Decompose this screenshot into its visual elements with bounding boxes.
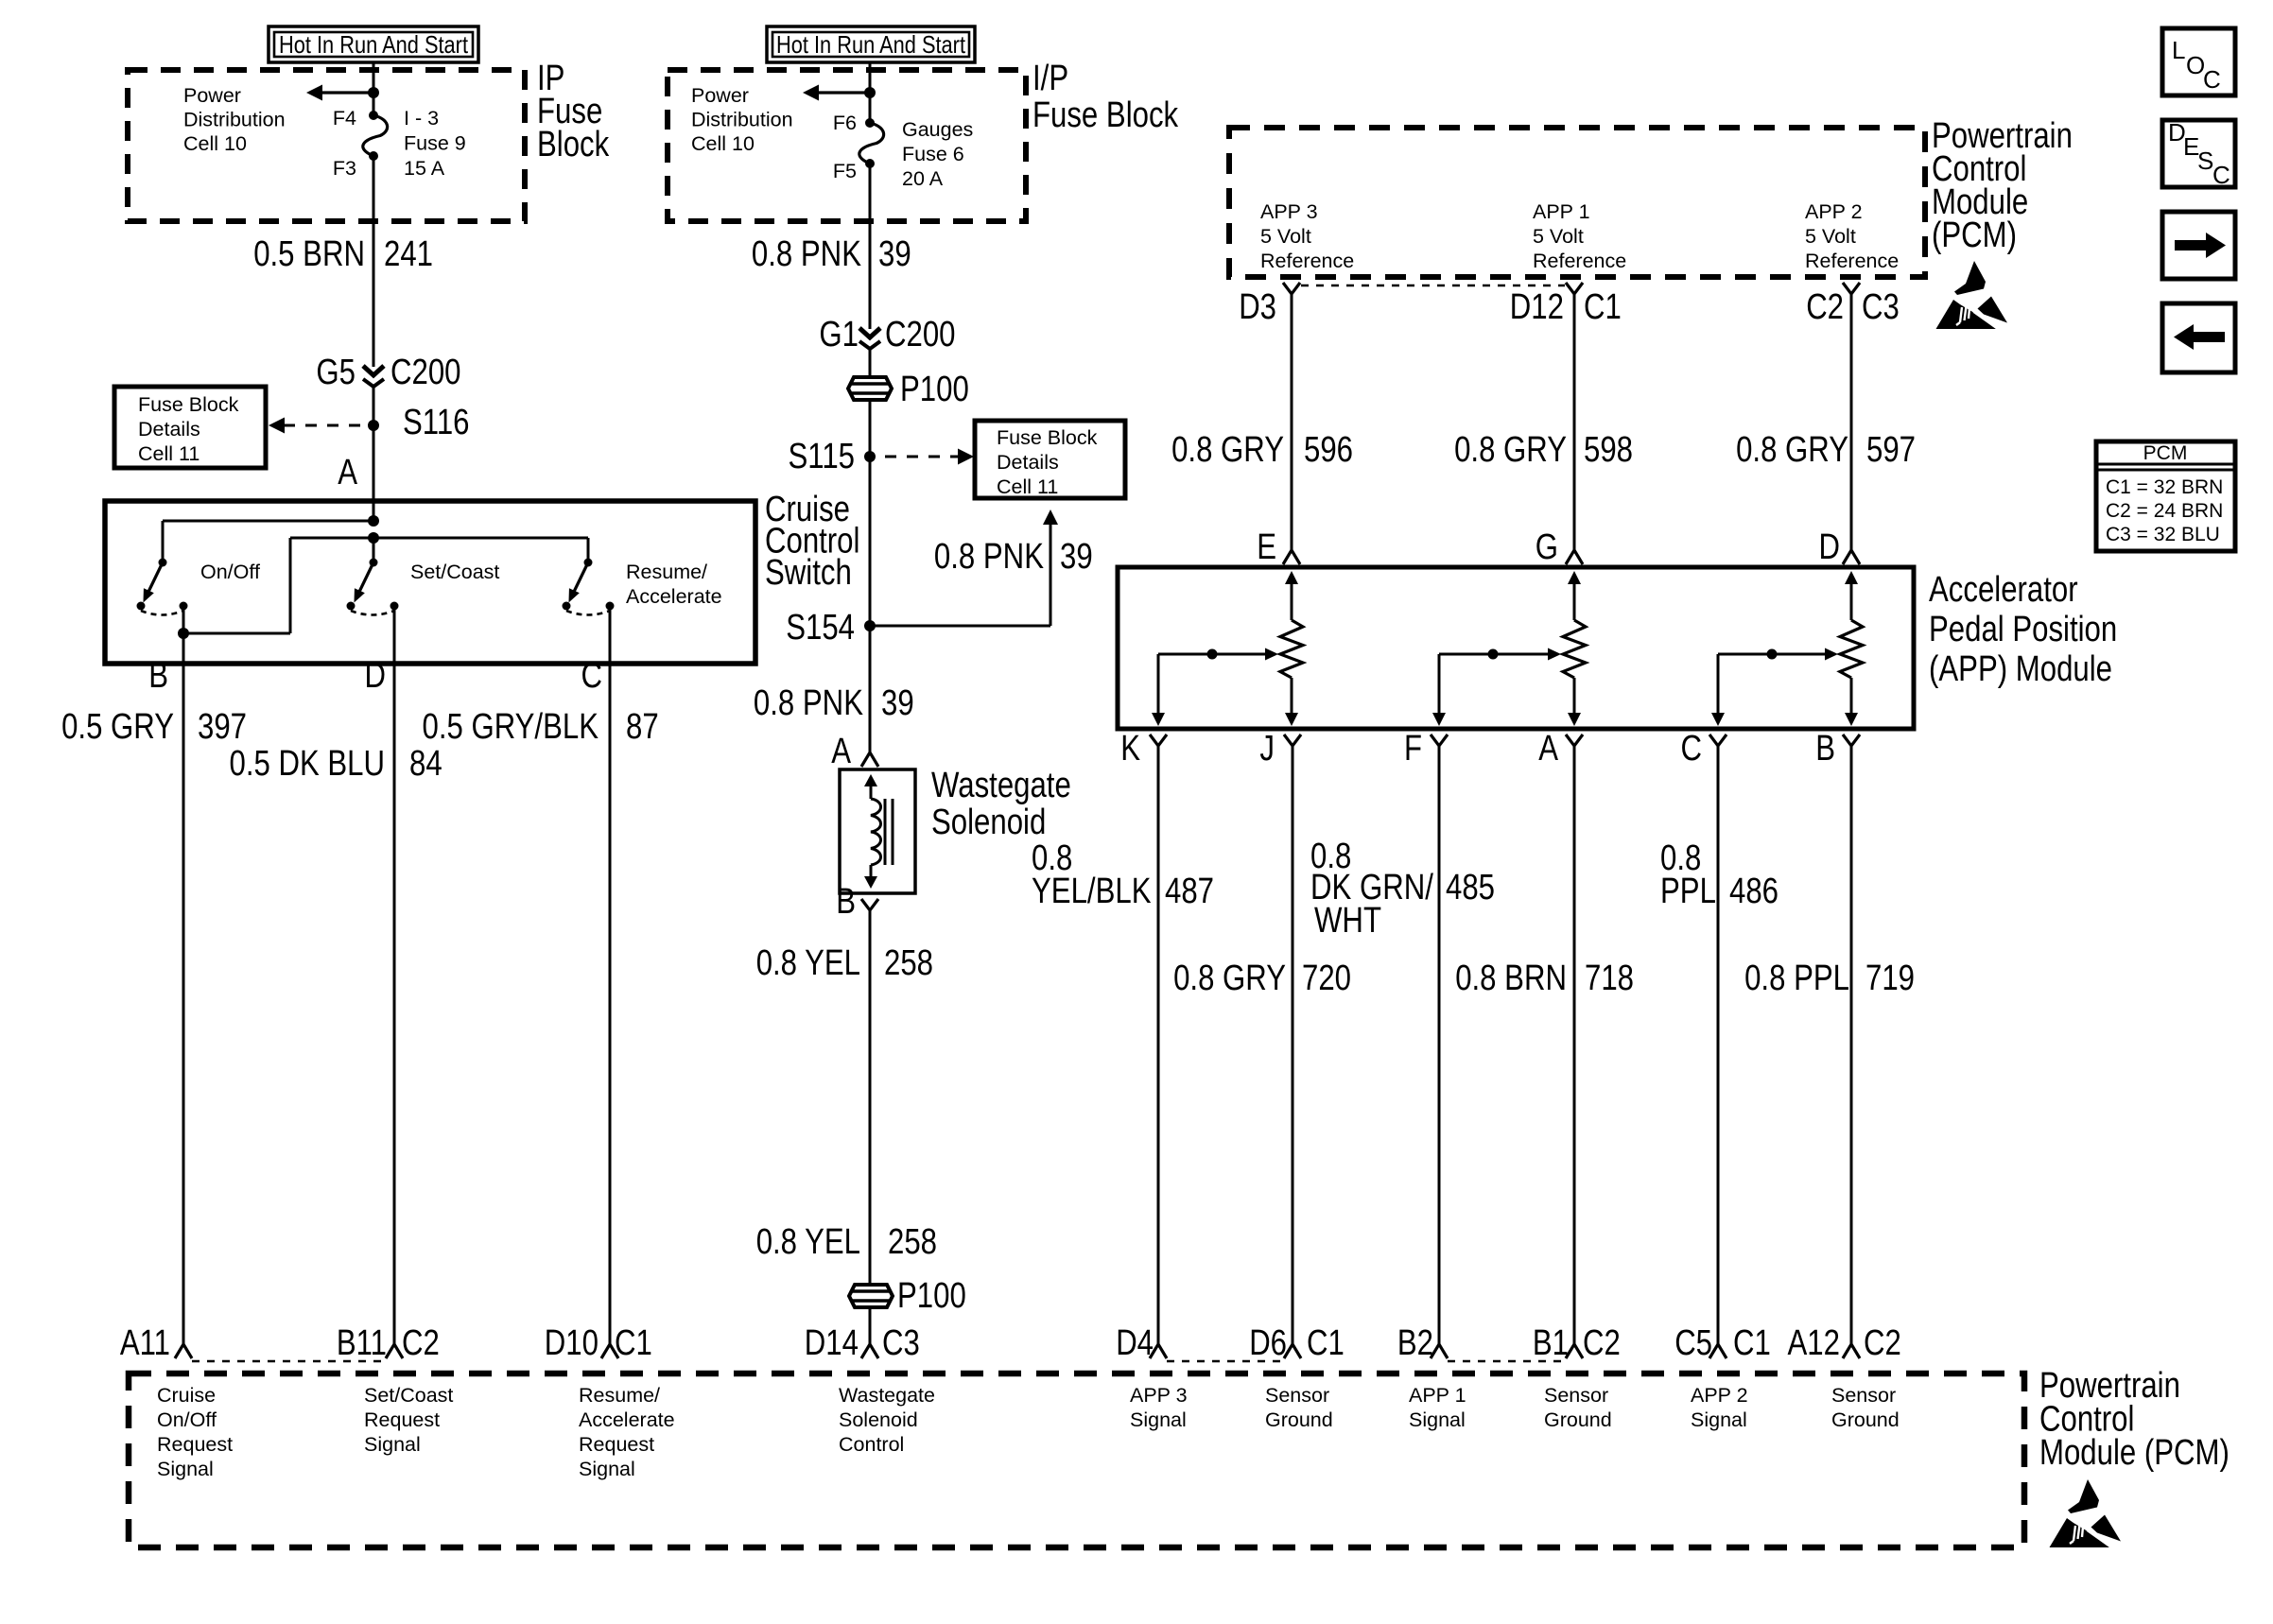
svg-text:C3: C3	[1862, 287, 1900, 327]
svg-text:Set/Coast: Set/Coast	[410, 561, 499, 583]
svg-text:B1: B1	[1533, 1323, 1569, 1363]
wire P100 to S115	[869, 400, 872, 626]
svg-text:APP 1: APP 1	[1409, 1384, 1466, 1407]
Powertrain Control Module dashed box (bottom)	[129, 1373, 2024, 1547]
svg-text:5 Volt: 5 Volt	[1805, 225, 1856, 248]
Accelerator Pedal Position APP Module box	[1118, 567, 1914, 729]
svg-text:F5: F5	[833, 160, 857, 182]
Fuse Block Details Cell 11 box (middle)	[975, 421, 1125, 498]
pin chevron B1	[1566, 1344, 1583, 1358]
splice S115	[864, 451, 876, 462]
svg-text:15 A: 15 A	[404, 157, 445, 180]
svg-text:Signal: Signal	[157, 1458, 214, 1480]
svg-text:487: 487	[1165, 872, 1214, 911]
svg-text:Solenoid: Solenoid	[839, 1408, 918, 1431]
grommet P100 (upper)	[848, 377, 892, 400]
svg-text:C1: C1	[1584, 287, 1622, 327]
pin chevron D12/C1	[1566, 283, 1583, 294]
svg-text:Reference: Reference	[1533, 250, 1626, 272]
pin chevron D10	[601, 1344, 618, 1358]
pin chevron G	[1566, 550, 1583, 564]
wire bus to Set/Coast pivot	[373, 538, 375, 562]
svg-text:D: D	[1819, 527, 1841, 567]
svg-text:Cell 11: Cell 11	[997, 475, 1058, 498]
svg-text:Signal: Signal	[1691, 1408, 1747, 1431]
svg-text:Pedal Position: Pedal Position	[1929, 610, 2117, 649]
svg-text:C: C	[2212, 161, 2230, 189]
svg-text:B: B	[1815, 729, 1835, 769]
wire On/Off output to bus	[182, 606, 185, 633]
wire P100 to PCM D14	[869, 1307, 872, 1344]
svg-text:598: 598	[1584, 430, 1633, 470]
svg-text:D10: D10	[545, 1323, 599, 1363]
svg-text:0.8 YEL: 0.8 YEL	[756, 943, 860, 983]
svg-text:Set/Coast: Set/Coast	[364, 1384, 453, 1407]
svg-text:0.8 PNK: 0.8 PNK	[754, 683, 863, 723]
IP Fuse Block dashed box (left)	[128, 70, 525, 221]
svg-text:S116: S116	[403, 403, 470, 442]
pin chevron D (APP)	[1843, 550, 1860, 564]
svg-text:Sensor: Sensor	[1265, 1384, 1329, 1407]
svg-text:Cell 10: Cell 10	[691, 132, 755, 155]
svg-text:C1 = 32 BRN: C1 = 32 BRN	[2106, 476, 2223, 498]
svg-text:D3: D3	[1239, 287, 1276, 327]
svg-text:Hot In Run And Start: Hot In Run And Start	[279, 30, 469, 59]
svg-text:B: B	[836, 882, 856, 922]
svg-text:Distribution: Distribution	[183, 109, 286, 131]
svg-text:Module (PCM): Module (PCM)	[2039, 1433, 2230, 1473]
pin chevron B (APP)	[1843, 734, 1860, 746]
svg-text:C2 = 24 BRN: C2 = 24 BRN	[2106, 500, 2223, 522]
pin chevron C5	[1709, 1344, 1726, 1358]
wire feed from Hot box (middle)	[869, 62, 872, 123]
svg-text:5 Volt: 5 Volt	[1260, 225, 1311, 248]
svg-text:Reference: Reference	[1260, 250, 1354, 272]
svg-text:Signal: Signal	[1409, 1408, 1466, 1431]
svg-text:YEL/BLK: YEL/BLK	[1032, 872, 1152, 911]
svg-text:Signal: Signal	[364, 1433, 421, 1456]
svg-text:84: 84	[409, 744, 442, 784]
svg-text:S: S	[2197, 147, 2213, 175]
svg-text:E: E	[1257, 527, 1276, 567]
pin chevron D3	[1283, 283, 1300, 294]
svg-text:C: C	[1681, 729, 1703, 769]
Powertrain Control Module dashed box (top)	[1229, 128, 1925, 277]
svg-text:D12: D12	[1510, 287, 1564, 327]
svg-text:397: 397	[198, 707, 247, 747]
svg-text:(PCM): (PCM)	[1932, 216, 2017, 255]
pin chevron B (wastegate)	[861, 899, 878, 910]
svg-text:241: 241	[384, 234, 433, 274]
svg-text:Accelerate: Accelerate	[626, 585, 722, 608]
wire 0.8 GRY 597	[1850, 294, 1853, 550]
svg-text:Ground: Ground	[1831, 1408, 1900, 1431]
junction dot A feed	[368, 515, 379, 527]
pin chevron C (APP)	[1709, 734, 1726, 746]
svg-text:C2: C2	[1806, 287, 1844, 327]
wastegate core lines	[884, 799, 887, 865]
svg-text:719: 719	[1865, 959, 1915, 998]
grommet P100 (lower)	[849, 1285, 893, 1307]
svg-text:0.5 DK BLU: 0.5 DK BLU	[230, 744, 386, 784]
power feed label box 'Hot In Run And Start' (left)	[269, 26, 478, 62]
svg-text:A12: A12	[1788, 1323, 1841, 1363]
svg-text:Accelerate: Accelerate	[579, 1408, 675, 1431]
wire B 0.5 GRY 397	[182, 633, 185, 1344]
svg-text:Sensor: Sensor	[1544, 1384, 1608, 1407]
svg-text:Request: Request	[157, 1433, 233, 1456]
svg-text:Request: Request	[579, 1433, 654, 1456]
svg-text:I - 3: I - 3	[404, 107, 439, 130]
svg-text:Reference: Reference	[1805, 250, 1899, 272]
svg-text:Switch: Switch	[765, 553, 852, 593]
svg-text:D: D	[365, 656, 387, 696]
wastegate coil	[864, 774, 877, 786]
wire feed from Hot box (left)	[373, 62, 375, 115]
svg-text:258: 258	[884, 943, 933, 983]
pin chevron B11	[386, 1344, 403, 1358]
wire below C200 (left)	[373, 387, 375, 521]
svg-text:WHT: WHT	[1314, 901, 1381, 941]
svg-text:C2: C2	[1583, 1323, 1621, 1363]
ESD symbol (bottom)	[2050, 1479, 2122, 1548]
svg-text:Request: Request	[364, 1408, 440, 1431]
wire 0.8 YEL 258 upper	[869, 910, 872, 1285]
wire C200 to P100	[869, 349, 872, 377]
svg-text:Fuse 9: Fuse 9	[404, 132, 466, 155]
svg-text:D14: D14	[805, 1323, 859, 1363]
svg-text:D4: D4	[1116, 1323, 1154, 1363]
wire A 0.8 BRN 718	[1573, 746, 1576, 1344]
svg-text:On/Off: On/Off	[200, 561, 260, 583]
svg-text:F4: F4	[333, 107, 356, 130]
svg-text:S115: S115	[789, 437, 856, 476]
fine dashed connector line D3-D12	[1301, 285, 1565, 287]
potentiometer APP2	[1845, 571, 1858, 584]
fuse Gauges Fuse 6 20A symbol	[865, 118, 875, 128]
pin chevron A12	[1843, 1344, 1860, 1358]
svg-text:597: 597	[1866, 430, 1916, 470]
svg-text:B11: B11	[337, 1323, 387, 1363]
svg-text:C3 = 32 BLU: C3 = 32 BLU	[2106, 524, 2220, 545]
dashed leader to Fuse Block Details (middle)	[885, 456, 958, 458]
wire bus to Resume pivot	[587, 538, 590, 562]
svg-text:A11: A11	[120, 1323, 170, 1363]
svg-text:718: 718	[1585, 959, 1634, 998]
svg-text:39: 39	[1060, 537, 1093, 577]
LOC reference box	[2162, 28, 2235, 95]
svg-text:0.5 GRY/BLK: 0.5 GRY/BLK	[423, 707, 599, 747]
arrow to power distribution (left)	[322, 91, 373, 94]
svg-text:Power: Power	[183, 84, 241, 107]
svg-text:258: 258	[888, 1222, 937, 1262]
svg-text:39: 39	[878, 234, 911, 274]
svg-text:A: A	[338, 453, 357, 492]
pin chevron A11	[175, 1344, 192, 1358]
svg-text:0.8 PNK: 0.8 PNK	[752, 234, 861, 274]
potentiometer APP1	[1568, 571, 1581, 584]
svg-text:596: 596	[1304, 430, 1353, 470]
ESD symbol (top)	[1936, 261, 2008, 330]
svg-text:Fuse Block: Fuse Block	[1032, 95, 1179, 135]
svg-text:PPL: PPL	[1660, 872, 1716, 911]
svg-text:APP 2: APP 2	[1691, 1384, 1748, 1407]
fine dashed connector line D4-D6	[1167, 1360, 1284, 1363]
svg-text:F3: F3	[333, 157, 356, 180]
splice S154	[864, 620, 876, 631]
switch On/Off	[159, 559, 167, 567]
svg-text:D6: D6	[1249, 1323, 1287, 1363]
svg-text:Details: Details	[138, 418, 200, 441]
svg-text:K: K	[1120, 729, 1140, 769]
svg-text:Power: Power	[691, 84, 749, 107]
pin chevron F	[1431, 734, 1448, 746]
svg-text:0.8 GRY: 0.8 GRY	[1173, 959, 1286, 998]
Fuse Block Details Cell 11 box (left)	[114, 387, 266, 468]
pin chevron D4	[1150, 1344, 1167, 1358]
svg-text:A: A	[1538, 729, 1558, 769]
DESC reference box	[2162, 120, 2235, 187]
wire 0.8 GRY 596	[1291, 294, 1293, 550]
svg-text:720: 720	[1302, 959, 1351, 998]
wire C 0.5 GRY/BLK 87	[609, 606, 612, 1344]
svg-text:Solenoid: Solenoid	[931, 803, 1046, 842]
svg-text:APP 3: APP 3	[1130, 1384, 1188, 1407]
svg-text:F6: F6	[833, 112, 857, 134]
wire 0.8 PNK 39 upper	[869, 164, 872, 329]
svg-text:C1: C1	[615, 1323, 652, 1363]
power feed label box 'Hot In Run And Start' (middle)	[767, 26, 975, 62]
svg-text:20 A: 20 A	[902, 167, 944, 190]
wire F 0.8 DK GRN/WHT 485	[1438, 746, 1441, 1344]
wire S154 branch to fuse block details	[870, 625, 1050, 628]
svg-text:Cell 10: Cell 10	[183, 132, 247, 155]
svg-text:Cruise: Cruise	[157, 1384, 216, 1407]
wire B 0.8 PPL 719	[1850, 746, 1853, 1344]
svg-text:C5: C5	[1674, 1323, 1712, 1363]
svg-text:0.8 GRY: 0.8 GRY	[1171, 430, 1284, 470]
wire S154 down	[869, 626, 872, 752]
pin chevron E	[1283, 550, 1300, 564]
svg-text:APP 3: APP 3	[1260, 200, 1318, 223]
svg-text:(APP) Module: (APP) Module	[1929, 649, 2112, 689]
svg-text:P100: P100	[900, 370, 969, 409]
dashed leader to Fuse Block Details (left)	[284, 424, 362, 427]
svg-text:C1: C1	[1307, 1323, 1345, 1363]
svg-text:0.8 GRY: 0.8 GRY	[1736, 430, 1848, 470]
svg-text:0.5 BRN: 0.5 BRN	[253, 234, 365, 274]
svg-text:C: C	[581, 656, 603, 696]
svg-text:B: B	[148, 656, 168, 696]
svg-text:Fuse 6: Fuse 6	[902, 143, 964, 165]
svg-text:87: 87	[626, 707, 659, 747]
svg-text:C2: C2	[1864, 1323, 1901, 1363]
svg-text:Resume/: Resume/	[626, 561, 707, 583]
right arrow nav box	[2162, 212, 2235, 279]
switch Set/Coast	[370, 559, 378, 567]
svg-text:0.8 PPL: 0.8 PPL	[1744, 959, 1849, 998]
svg-text:S154: S154	[786, 608, 855, 648]
pin chevron J	[1284, 734, 1301, 746]
connector C200 symbol (G1)	[859, 328, 880, 337]
svg-text:C1: C1	[1733, 1323, 1771, 1363]
svg-text:A: A	[831, 732, 851, 771]
svg-text:G1: G1	[819, 315, 859, 354]
wire J 0.8 GRY 720	[1292, 746, 1294, 1344]
switch Resume/Accelerate	[584, 559, 593, 567]
svg-text:C: C	[2203, 65, 2221, 94]
svg-text:Details: Details	[997, 451, 1059, 474]
svg-text:Gauges: Gauges	[902, 118, 973, 141]
svg-text:C200: C200	[390, 353, 461, 392]
Cruise Control Switch box	[105, 501, 755, 664]
svg-text:Hot In Run And Start: Hot In Run And Start	[776, 30, 966, 59]
arrow to power distribution (middle)	[819, 91, 870, 94]
svg-text:Fuse Block: Fuse Block	[138, 393, 239, 416]
svg-text:G5: G5	[316, 353, 356, 392]
wire C 0.8 PPL 486	[1717, 746, 1720, 1344]
svg-text:Control: Control	[839, 1433, 904, 1456]
svg-text:Fuse Block: Fuse Block	[997, 426, 1098, 449]
pin chevron A (wastegate)	[861, 752, 878, 767]
svg-text:Signal: Signal	[1130, 1408, 1187, 1431]
wire K 0.8 YEL/BLK 487	[1157, 746, 1160, 1344]
I/P Fuse Block dashed box (middle)	[668, 70, 1026, 221]
svg-text:P100: P100	[897, 1276, 966, 1316]
svg-text:Accelerator: Accelerator	[1929, 570, 2078, 610]
svg-text:0.8 BRN: 0.8 BRN	[1455, 959, 1567, 998]
svg-text:5 Volt: 5 Volt	[1533, 225, 1584, 248]
fuse F9 15A symbol (left)	[369, 111, 378, 120]
svg-text:0.5 GRY: 0.5 GRY	[61, 707, 174, 747]
fine dashed connector line B2-B1	[1448, 1360, 1566, 1363]
svg-text:0.8 GRY: 0.8 GRY	[1454, 430, 1567, 470]
svg-text:J: J	[1259, 729, 1275, 769]
svg-text:486: 486	[1729, 872, 1778, 911]
svg-text:Block: Block	[537, 125, 610, 164]
svg-text:APP 2: APP 2	[1805, 200, 1863, 223]
svg-text:On/Off: On/Off	[157, 1408, 217, 1431]
pin chevron K	[1150, 734, 1167, 746]
svg-text:B2: B2	[1397, 1323, 1433, 1363]
svg-text:Wastegate: Wastegate	[931, 766, 1071, 805]
svg-text:C200: C200	[885, 315, 956, 354]
svg-text:Sensor: Sensor	[1831, 1384, 1896, 1407]
pin chevron A (APP)	[1566, 734, 1583, 746]
svg-text:Resume/: Resume/	[579, 1384, 660, 1407]
svg-text:I/P: I/P	[1032, 59, 1068, 98]
fine dashed connector line A11-B11	[192, 1360, 386, 1363]
svg-text:Ground: Ground	[1544, 1408, 1612, 1431]
splice S116	[368, 420, 379, 431]
wire A to On/Off pivot	[163, 520, 373, 523]
svg-text:0.8 PNK: 0.8 PNK	[934, 537, 1044, 577]
svg-text:39: 39	[881, 683, 914, 723]
svg-text:APP 1: APP 1	[1533, 200, 1590, 223]
left arrow nav box	[2162, 303, 2235, 372]
svg-text:Cell 11: Cell 11	[138, 442, 200, 465]
svg-text:Signal: Signal	[579, 1458, 635, 1480]
pin chevron C2/C3	[1843, 283, 1860, 294]
svg-text:485: 485	[1446, 868, 1495, 907]
pin chevron D6	[1284, 1344, 1301, 1358]
svg-text:G: G	[1536, 527, 1558, 567]
Wastegate Solenoid box	[840, 769, 915, 893]
wire 0.5 BRN 241	[373, 156, 375, 367]
pin chevron B2	[1431, 1344, 1448, 1358]
svg-text:0.8 YEL: 0.8 YEL	[756, 1222, 860, 1262]
potentiometer APP3	[1285, 571, 1298, 584]
pin chevron D14	[861, 1344, 878, 1358]
connector C200 symbol (G5)	[363, 366, 384, 375]
svg-text:F: F	[1404, 729, 1422, 769]
svg-text:Ground: Ground	[1265, 1408, 1333, 1431]
svg-text:Distribution: Distribution	[691, 109, 793, 131]
wire 0.8 GRY 598	[1573, 294, 1576, 550]
svg-text:C2: C2	[402, 1323, 440, 1363]
wire D 0.5 DK BLU 84	[393, 606, 396, 1344]
svg-text:L: L	[2172, 36, 2185, 64]
PCM connector table	[2096, 441, 2235, 551]
svg-text:C3: C3	[882, 1323, 920, 1363]
svg-text:PCM: PCM	[2143, 442, 2188, 464]
svg-text:Wastegate: Wastegate	[839, 1384, 935, 1407]
